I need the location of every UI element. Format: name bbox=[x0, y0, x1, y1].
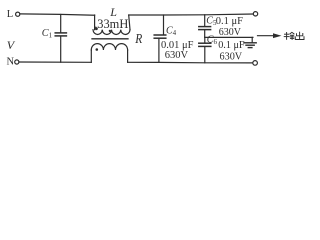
capacitor C6 (bottom Y-cap) bbox=[199, 37, 211, 62]
svg-text:0.1 μF: 0.1 μF bbox=[216, 16, 243, 27]
terminal L bbox=[16, 12, 20, 16]
svg-text:630V: 630V bbox=[219, 27, 242, 38]
svg-text:0.1 μF: 0.1 μF bbox=[218, 40, 245, 51]
node Y-cap midpoint wire bbox=[205, 36, 253, 38]
decimal point blob of .33mH bbox=[95, 27, 98, 30]
capacitor C1 bbox=[55, 15, 66, 63]
capacitor C4 bbox=[154, 15, 166, 62]
phase dot bottom winding bbox=[96, 48, 99, 51]
svg-text:630V: 630V bbox=[165, 50, 189, 61]
wire bottom-right (choke to output) bbox=[128, 61, 253, 64]
svg-text:L: L bbox=[7, 9, 13, 20]
ground bbox=[244, 37, 256, 47]
phase dot top winding bbox=[109, 30, 111, 32]
wire bottom-left (N to choke) bbox=[19, 61, 91, 63]
svg-text:R: R bbox=[134, 31, 142, 46]
svg-text:630V: 630V bbox=[220, 52, 243, 63]
wire top-left (L to choke) bbox=[20, 14, 95, 15]
label chu (output char 2) bbox=[295, 32, 304, 39]
capacitor C5 (top Y-cap) bbox=[199, 15, 211, 38]
inductor L1 bottom winding bbox=[91, 44, 127, 63]
terminal output top bbox=[253, 12, 257, 16]
terminal output bottom bbox=[253, 61, 258, 66]
svg-text:N: N bbox=[7, 57, 15, 68]
core line bbox=[92, 38, 128, 40]
label shu (output char 1) bbox=[284, 32, 294, 39]
wire top-right (choke to output) bbox=[129, 14, 254, 15]
svg-text:.33mH: .33mH bbox=[94, 17, 128, 31]
output arrow bbox=[258, 33, 282, 38]
inductor L1 top winding (common-mode choke) bbox=[93, 15, 130, 34]
terminal N bbox=[15, 60, 19, 64]
